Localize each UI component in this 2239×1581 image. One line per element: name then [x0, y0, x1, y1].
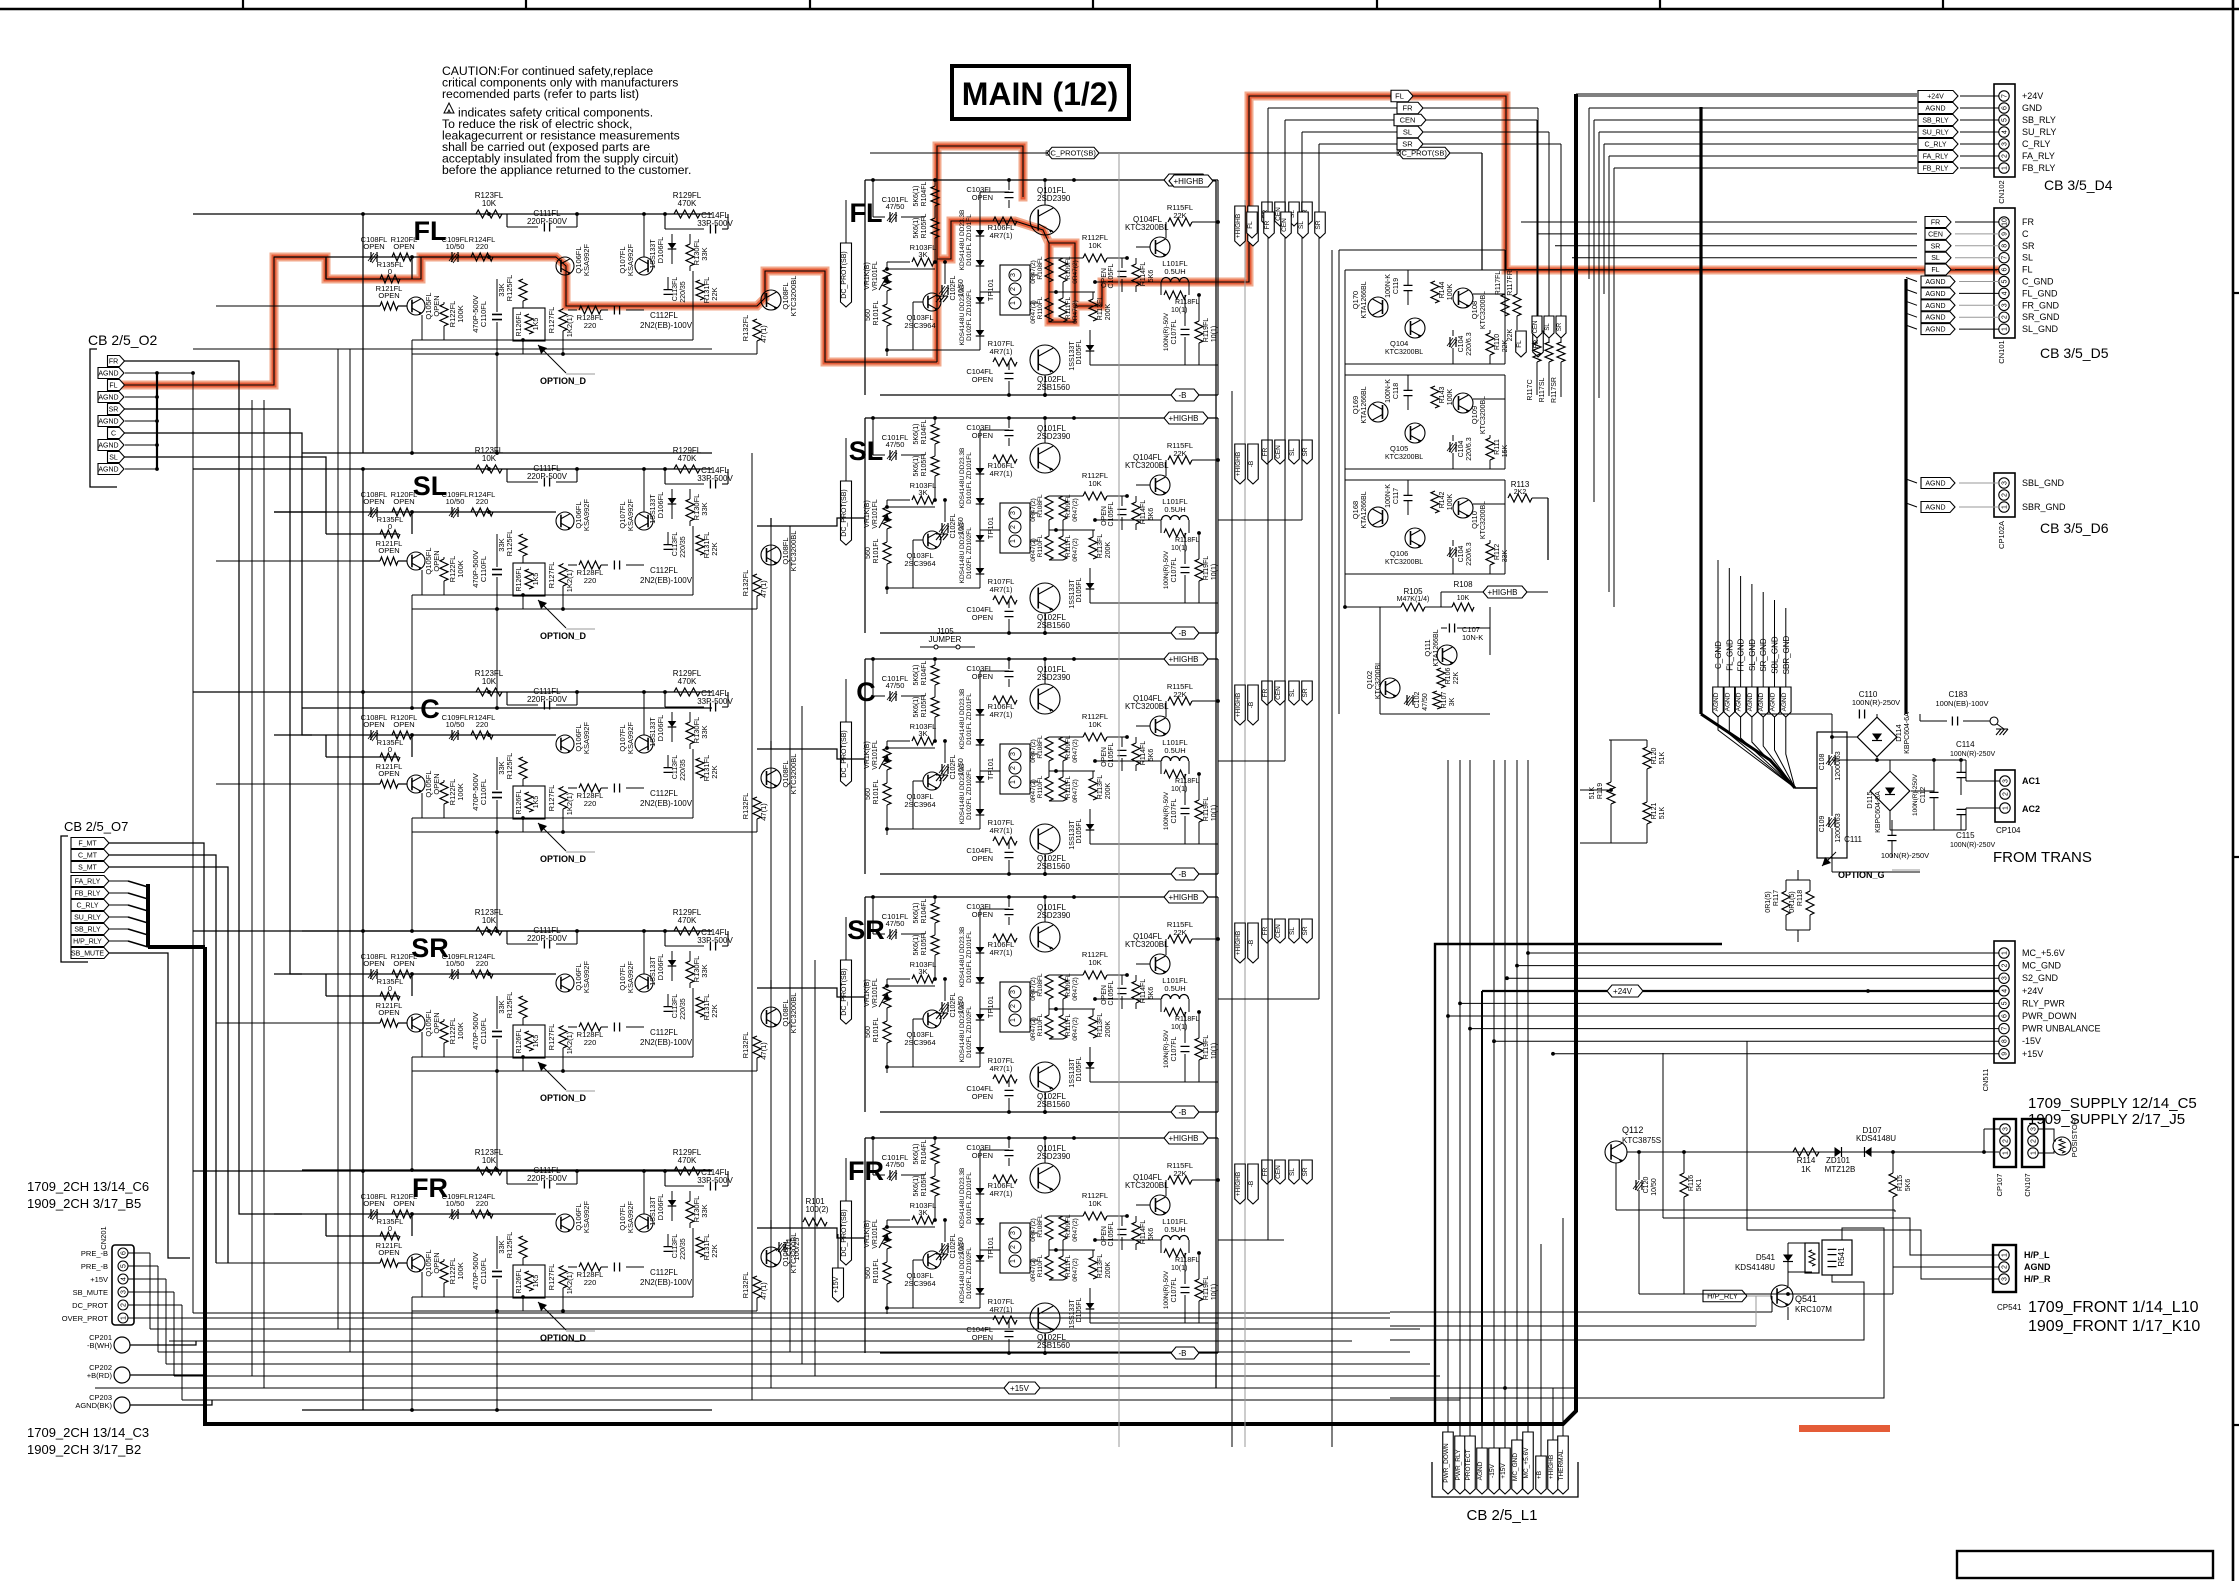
svg-text:22K: 22K	[1453, 671, 1460, 684]
capacitor C112 100N(R)-250V	[1912, 760, 1939, 830]
svg-text:KTC3200BL: KTC3200BL	[1480, 501, 1487, 539]
wire headphone runs	[1390, 1041, 1999, 1398]
svg-text:AGND: AGND	[1713, 692, 1720, 711]
svg-text:3: 3	[2031, 1127, 2038, 1131]
svg-text:KTA1266BL: KTA1266BL	[1361, 281, 1368, 318]
svg-text:SL: SL	[2022, 253, 2033, 263]
svg-text:CB 3/5_D4: CB 3/5_D4	[2044, 177, 2113, 193]
svg-text:CN107: CN107	[2023, 1173, 2032, 1196]
svg-text:1909_SUPPLY 2/17_J5: 1909_SUPPLY 2/17_J5	[2028, 1111, 2185, 1128]
svg-text:2: 2	[2002, 1265, 2009, 1269]
resistor R143 100K	[1431, 386, 1454, 408]
svg-text:220/6.3: 220/6.3	[1466, 542, 1473, 565]
svg-text:before the appliance returned: before the appliance returned to the cus…	[442, 163, 691, 177]
svg-text:C109: C109	[1819, 816, 1826, 833]
ruler right ticks	[2233, 293, 2239, 1425]
svg-text:2: 2	[2002, 154, 2009, 158]
svg-text:MAIN (1/2): MAIN (1/2)	[962, 76, 1118, 112]
svg-text:4: 4	[121, 1277, 128, 1281]
wire preamp outputs to power inputs	[757, 518, 865, 1238]
svg-text:Q112: Q112	[1622, 1125, 1643, 1135]
svg-text:M47K(1/4): M47K(1/4)	[1397, 596, 1430, 603]
svg-text:22K: 22K	[1507, 328, 1514, 341]
svg-text:SR: SR	[1402, 140, 1413, 149]
svg-text:51K: 51K	[1659, 751, 1666, 764]
svg-text:3: 3	[121, 1290, 128, 1294]
svg-text:C102: C102	[1414, 692, 1421, 709]
power block FR	[848, 1132, 1220, 1359]
wire AGND bus CB O2	[125, 371, 195, 471]
svg-text:SR: SR	[1931, 243, 1941, 250]
svg-text:+15V: +15V	[1500, 1463, 1507, 1479]
net DC_PROT(SB) FR	[841, 1158, 852, 1265]
connector CN511	[1981, 941, 2101, 1091]
net labels right bus rows	[1235, 202, 1313, 1204]
svg-text:AGND: AGND	[98, 467, 118, 474]
label GND column	[1713, 620, 1795, 788]
svg-text:R142: R142	[1439, 492, 1446, 509]
svg-text:3K: 3K	[1449, 697, 1456, 706]
svg-text:5: 5	[2002, 1001, 2009, 1005]
svg-text:R117SR: R117SR	[1551, 377, 1558, 403]
svg-text:SL: SL	[109, 455, 118, 462]
svg-text:-B: -B	[1248, 1181, 1255, 1188]
svg-text:PWR UNBALANCE: PWR UNBALANCE	[2022, 1024, 2101, 1034]
svg-text:RLY_PWR: RLY_PWR	[2022, 998, 2065, 1008]
resistor R142 100K	[1431, 491, 1454, 513]
svg-text:100N-K: 100N-K	[1385, 484, 1392, 508]
svg-text:100N(R)-250V: 100N(R)-250V	[1950, 842, 1995, 849]
svg-text:FR: FR	[1264, 220, 1271, 229]
svg-text:R117C: R117C	[1527, 379, 1534, 400]
svg-text:R119: R119	[1597, 783, 1604, 799]
capacitor C115 100N(R)-250V	[1950, 809, 1995, 849]
svg-text:SL: SL	[1545, 323, 1551, 331]
svg-text:THERMAL: THERMAL	[1558, 1449, 1565, 1480]
svg-text:CP104: CP104	[1996, 826, 2021, 835]
svg-text:FR_GND: FR_GND	[2022, 300, 2060, 310]
svg-text:FA_RLY: FA_RLY	[75, 879, 101, 886]
svg-text:6: 6	[2002, 106, 2009, 110]
capacitor C101 100/25	[776, 1238, 801, 1261]
net labels on top rows	[1391, 90, 1426, 150]
transistor Q105 KTC3200BL	[1385, 423, 1425, 461]
svg-text:1: 1	[2002, 166, 2009, 170]
svg-text:4: 4	[2002, 291, 2009, 295]
transistor Q541 KRC107M	[1771, 1272, 1832, 1320]
svg-text:C: C	[856, 677, 876, 707]
svg-text:CEN: CEN	[1400, 116, 1416, 125]
svg-text:1: 1	[2002, 505, 2009, 509]
title MAIN (1/2)	[952, 66, 1129, 119]
connector CP203 AGND(BK)	[75, 1393, 150, 1413]
transistor Q112 KTC3875S	[1605, 1125, 1984, 1210]
capacitor C10x 220/6.3	[1447, 435, 1473, 469]
svg-text:C115: C115	[1956, 831, 1975, 840]
resistor R119 51K	[1589, 740, 1615, 843]
transistor Q106 KTC3200BL	[1385, 528, 1425, 566]
wire bridge interconnects	[1830, 714, 1963, 830]
svg-text:2: 2	[121, 1303, 128, 1307]
svg-text:-B: -B	[1248, 702, 1255, 709]
svg-text:SU_RLY: SU_RLY	[1922, 130, 1949, 137]
svg-text:FR: FR	[1403, 104, 1414, 113]
svg-text:C120: C120	[1643, 1177, 1650, 1194]
svg-text:Q105: Q105	[1390, 444, 1408, 453]
svg-text:1: 1	[2002, 327, 2009, 331]
svg-text:+24V: +24V	[2022, 91, 2043, 101]
label 1709_FRONT	[2028, 1299, 2200, 1335]
svg-text:recomended parts (refer to par: recomended parts (refer to parts list)	[442, 87, 639, 101]
zener ZD101 MTZ12B	[1825, 1147, 1856, 1174]
svg-text:1: 1	[2003, 1151, 2010, 1155]
svg-text:Q108: Q108	[1470, 301, 1479, 319]
svg-text:CN511: CN511	[1981, 1069, 1990, 1092]
svg-text:AGND: AGND	[1781, 692, 1788, 711]
svg-text:KTA1266BL: KTA1266BL	[1433, 629, 1440, 666]
svg-text:MC_GND: MC_GND	[2022, 961, 2062, 971]
svg-text:R117FL: R117FL	[1495, 271, 1502, 295]
power block SR	[847, 891, 1220, 1118]
net H/P_RLY	[1703, 1290, 1772, 1302]
capacitor C10x 220/6.3	[1447, 540, 1473, 574]
svg-text:SL: SL	[1289, 689, 1296, 697]
svg-text:100N(R)-250V: 100N(R)-250V	[1852, 698, 1900, 707]
svg-text:KBPC604-6A: KBPC604-6A	[1875, 791, 1882, 833]
svg-text:3: 3	[2002, 481, 2009, 485]
svg-text:FL: FL	[1516, 340, 1523, 348]
svg-text:CEN: CEN	[1281, 218, 1288, 232]
svg-text:F_MT: F_MT	[78, 841, 97, 848]
svg-text:CB 3/5_D5: CB 3/5_D5	[2040, 345, 2109, 361]
wire relay cluster frame	[1345, 480, 1505, 574]
svg-text:R113: R113	[1511, 480, 1530, 489]
svg-text:FL_GND: FL_GND	[2022, 288, 2058, 298]
svg-text:R541: R541	[1837, 1247, 1846, 1267]
svg-text:C104: C104	[1458, 546, 1465, 563]
svg-text:0R1(5): 0R1(5)	[1789, 891, 1796, 912]
svg-text:CB 2/5_O2: CB 2/5_O2	[88, 332, 157, 348]
resistor R144 100K	[1431, 281, 1454, 303]
svg-text:OVER_PROT: OVER_PROT	[62, 1314, 109, 1323]
svg-text:FB_RLY: FB_RLY	[1923, 166, 1949, 173]
svg-text:3: 3	[2003, 779, 2010, 783]
svg-text:C_RLY: C_RLY	[1924, 142, 1946, 149]
preamp block FL	[193, 191, 798, 455]
connector CP202 +B(RD)	[87, 1363, 150, 1383]
transistor Q169 KTA1266BL	[1351, 386, 1388, 423]
svg-text:AGND: AGND	[1770, 692, 1777, 711]
svg-text:DC_PROT(SB): DC_PROT(SB)	[841, 251, 848, 298]
svg-text:FL: FL	[2022, 265, 2033, 275]
connector CB 2/5_L1	[1432, 760, 1578, 1524]
label FROM TRANS	[1993, 849, 2092, 866]
svg-text:KTC3200BL: KTC3200BL	[1385, 454, 1423, 461]
svg-text:1909_2CH 3/17_B2: 1909_2CH 3/17_B2	[27, 1442, 141, 1457]
net DC_PROT(SB) SR	[841, 917, 852, 1024]
svg-text:2: 2	[2003, 792, 2010, 796]
resistor bank R117C R117SL R117SR 22K	[1527, 316, 1566, 403]
svg-text:5: 5	[2002, 279, 2009, 283]
svg-text:SR_GND: SR_GND	[2022, 312, 2060, 322]
svg-text:4: 4	[2002, 989, 2009, 993]
svg-text:C_RLY: C_RLY	[76, 903, 98, 910]
svg-text:6: 6	[2002, 1014, 2009, 1018]
svg-text:FROM TRANS: FROM TRANS	[1993, 849, 2092, 866]
svg-text:D541: D541	[1756, 1253, 1776, 1262]
svg-text:S2_GND: S2_GND	[2022, 973, 2059, 983]
svg-text:AGND: AGND	[1925, 481, 1945, 488]
wire cluster out	[1473, 398, 1505, 400]
svg-text:AGND: AGND	[1925, 303, 1945, 310]
wire relay bus merge	[109, 881, 205, 1258]
svg-text:AGND: AGND	[98, 371, 118, 378]
svg-text:+HIGHB: +HIGHB	[1235, 931, 1242, 955]
svg-text:KDS4148U: KDS4148U	[1735, 1263, 1775, 1272]
wire supply left horizontals	[1580, 740, 1613, 843]
svg-text:OPTION_G: OPTION_G	[1838, 870, 1885, 880]
diode D107 KDS4148U	[1856, 1126, 1896, 1157]
svg-text:-B: -B	[1248, 940, 1255, 947]
preamp block SR	[193, 908, 798, 1172]
net +HIGHB top	[1169, 175, 1216, 1388]
svg-text:SU_RLY: SU_RLY	[2022, 127, 2056, 137]
svg-text:SB_RLY: SB_RLY	[2022, 115, 2056, 125]
svg-text:D115: D115	[1865, 791, 1874, 808]
svg-text:PRE_-B: PRE_-B	[81, 1249, 108, 1258]
svg-text:C_GND: C_GND	[2022, 277, 2054, 287]
svg-text:C183: C183	[1948, 690, 1968, 699]
svg-text:AGND(BK): AGND(BK)	[75, 1401, 112, 1410]
svg-text:SB_RLY: SB_RLY	[74, 927, 101, 934]
wire MT runs	[109, 843, 228, 1263]
svg-text:1: 1	[2003, 806, 2010, 810]
svg-text:C_MT: C_MT	[78, 853, 98, 860]
svg-text:DC_PROT: DC_PROT	[72, 1301, 108, 1310]
svg-text:FL: FL	[414, 216, 447, 246]
svg-text:R114: R114	[1797, 1156, 1816, 1165]
net DC_PROT(SB) top	[870, 147, 1482, 270]
svg-text:PRE_-B: PRE_-B	[81, 1262, 108, 1271]
svg-text:R108: R108	[1453, 580, 1473, 589]
svg-text:MC_+5.6V: MC_+5.6V	[2022, 948, 2065, 958]
svg-text:51K: 51K	[1659, 806, 1666, 819]
svg-text:R115: R115	[1897, 1175, 1904, 1191]
wire relay cluster frame	[1345, 270, 1505, 364]
svg-text:Q102: Q102	[1365, 671, 1374, 689]
svg-text:AGND: AGND	[2024, 1262, 2051, 1272]
svg-text:100(2): 100(2)	[805, 1205, 828, 1214]
wire long horizontal y349	[193, 348, 712, 350]
svg-text:9: 9	[2002, 1052, 2009, 1056]
svg-text:3: 3	[2003, 1127, 2010, 1131]
svg-text:CP107: CP107	[1995, 1174, 2004, 1197]
svg-text:SL: SL	[1289, 448, 1296, 456]
svg-text:1709_FRONT 1/14_L10: 1709_FRONT 1/14_L10	[2028, 1299, 2199, 1316]
svg-text:220/6.3: 220/6.3	[1466, 437, 1473, 460]
svg-text:CB 3/5_D6: CB 3/5_D6	[2040, 520, 2109, 536]
svg-text:AC2: AC2	[2022, 804, 2040, 814]
svg-text:SR: SR	[1302, 447, 1309, 456]
wire AGND thick bus right	[1906, 278, 1917, 715]
transistor Q104 KTC3200BL	[1385, 318, 1425, 356]
connector CP541	[1993, 1245, 2051, 1312]
svg-text:SL_GND: SL_GND	[2022, 324, 2059, 334]
connector CP102A	[1906, 473, 2109, 549]
svg-text:SB_MUTE: SB_MUTE	[73, 1288, 108, 1297]
svg-text:CN101: CN101	[1997, 340, 2006, 363]
svg-text:Q541: Q541	[1795, 1294, 1817, 1304]
svg-text:R106: R106	[1445, 668, 1452, 685]
svg-text:FL: FL	[1931, 267, 1939, 274]
svg-text:SBR_GND: SBR_GND	[2022, 502, 2066, 512]
svg-text:+15V: +15V	[90, 1275, 108, 1284]
wire relay section frame	[1339, 250, 1505, 714]
svg-text:Q104: Q104	[1390, 339, 1408, 348]
svg-text:R111: R111	[1494, 439, 1501, 455]
label 1709_2CH 13/14_C6	[27, 1179, 149, 1211]
svg-text:R117SL: R117SL	[1539, 378, 1546, 403]
svg-text:FB_RLY: FB_RLY	[75, 891, 101, 898]
svg-text:SR: SR	[1302, 1167, 1309, 1176]
svg-text:GND: GND	[2022, 103, 2043, 113]
svg-text:PWR_DOWN: PWR_DOWN	[1443, 1443, 1450, 1483]
svg-text:SR: SR	[1302, 688, 1309, 697]
svg-text:MC_+5.6V: MC_+5.6V	[1523, 1447, 1530, 1479]
preamp block C	[193, 669, 798, 933]
svg-text:R110: R110	[1494, 334, 1501, 350]
svg-text:SBL_GND: SBL_GND	[2022, 478, 2065, 488]
capacitor C117 100N-K	[1385, 480, 1413, 515]
svg-text:+15V: +15V	[833, 1276, 840, 1293]
capacitor C111 100N(R)-250V	[1844, 820, 1929, 860]
svg-text:R105: R105	[1403, 587, 1423, 596]
preamp block SL	[193, 446, 798, 710]
svg-text:5K1: 5K1	[1696, 1179, 1703, 1192]
resistor R114 1K	[1793, 1148, 1819, 1174]
svg-text:DC_PROT(SB): DC_PROT(SB)	[1045, 149, 1096, 158]
bridge rectifier D115 KBPC604-6A	[1865, 771, 1910, 833]
svg-text:0R1(5): 0R1(5)	[1765, 891, 1772, 912]
ruler right border line	[2232, 0, 2235, 1581]
svg-text:-15V: -15V	[1489, 1463, 1496, 1477]
svg-text:R107: R107	[1441, 692, 1448, 709]
svg-text:8: 8	[2002, 1039, 2009, 1043]
svg-text:+15V: +15V	[1010, 1384, 1030, 1393]
wire thick relay bus to right	[205, 94, 1576, 1424]
transistor Q168 KTA1266BL	[1351, 491, 1388, 528]
svg-text:2: 2	[2031, 1139, 2038, 1143]
svg-text:KTC3200BL: KTC3200BL	[1375, 661, 1382, 699]
svg-text:2: 2	[2003, 1139, 2010, 1143]
svg-text:Q168: Q168	[1351, 501, 1360, 519]
svg-text:SL: SL	[1931, 255, 1940, 262]
svg-text:D114: D114	[1894, 724, 1903, 741]
net DC_PROT(SB) FL	[841, 200, 852, 307]
wire CN101 feeds	[1506, 222, 1917, 270]
svg-text:-B(WH): -B(WH)	[87, 1341, 112, 1350]
wire cluster out	[1473, 293, 1505, 295]
svg-text:10: 10	[2002, 218, 2009, 226]
svg-text:CN201: CN201	[99, 1226, 108, 1249]
svg-text:AGND: AGND	[1925, 505, 1945, 512]
svg-text:6: 6	[121, 1251, 128, 1255]
resistor R110 22K	[1486, 330, 1509, 364]
svg-text:100N(R)-250V: 100N(R)-250V	[1912, 773, 1919, 816]
svg-text:Q109: Q109	[1470, 406, 1479, 424]
svg-text:JUMPER: JUMPER	[929, 635, 962, 644]
orange mark bottom right	[1799, 1425, 1890, 1432]
transistor Q110 KTC3200BL	[1453, 498, 1487, 539]
net +15V vertical	[833, 1234, 844, 1302]
svg-text:C118: C118	[1393, 383, 1400, 399]
svg-text:KDS4148U: KDS4148U	[1856, 1134, 1896, 1143]
svg-text:100N(EB)-100V: 100N(EB)-100V	[1936, 699, 1989, 708]
capacitor C120 10/50	[1633, 1150, 1658, 1294]
svg-text:SL: SL	[1298, 221, 1305, 229]
svg-text:+24V: +24V	[1613, 987, 1633, 996]
svg-text:2: 2	[2002, 493, 2009, 497]
resistor R116 5K1	[1680, 1150, 1703, 1294]
connector CP104	[1961, 760, 2040, 835]
svg-text:CEN: CEN	[1928, 231, 1943, 238]
svg-text:C: C	[111, 431, 116, 438]
svg-text:100/25: 100/25	[792, 1238, 801, 1261]
svg-text:+HIGHB: +HIGHB	[1173, 177, 1203, 186]
svg-text:AGND: AGND	[1477, 1461, 1484, 1480]
wire mute stubs	[216, 306, 364, 1263]
svg-text:S_MT: S_MT	[78, 865, 97, 872]
svg-text:KTA1266BL: KTA1266BL	[1361, 386, 1368, 423]
svg-text:CB 2/5_O7: CB 2/5_O7	[64, 819, 128, 834]
capacitor C10x 220/6.3	[1447, 330, 1473, 364]
resistor R121 51K	[1609, 769, 1666, 843]
svg-text:+HIGHB: +HIGHB	[1548, 1455, 1555, 1479]
svg-text:SR: SR	[2022, 241, 2035, 251]
svg-text:CEN: CEN	[1533, 321, 1539, 334]
svg-text:AGND: AGND	[1925, 291, 1945, 298]
svg-text:CN102: CN102	[1997, 180, 2006, 203]
wire middle verticals	[752, 453, 815, 1400]
svg-text:KTC3200BL: KTC3200BL	[1385, 349, 1423, 356]
svg-text:2: 2	[2002, 964, 2009, 968]
svg-text:1909_2CH 3/17_B5: 1909_2CH 3/17_B5	[27, 1196, 141, 1211]
svg-text:H/P_L: H/P_L	[2024, 1250, 2050, 1260]
svg-text:SR: SR	[109, 407, 119, 414]
connector CP201 -B(WH)	[87, 1333, 150, 1353]
resistor bank R117FL R117FR 22K	[1495, 270, 1521, 341]
svg-text:51K: 51K	[1589, 786, 1596, 799]
svg-text:C112: C112	[1920, 787, 1927, 803]
svg-text:AGND: AGND	[1724, 692, 1731, 711]
svg-text:ZD101: ZD101	[1826, 1156, 1851, 1165]
svg-text:+HIGHB: +HIGHB	[1235, 214, 1242, 238]
svg-text:FL: FL	[1395, 92, 1404, 101]
wire +B thick feed	[1435, 944, 1722, 1424]
svg-text:R118: R118	[1797, 890, 1804, 906]
svg-text:1: 1	[121, 1316, 128, 1320]
svg-text:C104: C104	[1458, 441, 1465, 458]
posistor	[2038, 1118, 2079, 1157]
svg-text:+24V: +24V	[2022, 986, 2043, 996]
svg-text:C111: C111	[1844, 835, 1862, 844]
svg-text:KTA1266BL: KTA1266BL	[1361, 491, 1368, 528]
net labels FL FR right pair	[1516, 331, 1544, 357]
svg-text:FR: FR	[412, 1173, 448, 1203]
svg-text:SL: SL	[1289, 1168, 1296, 1176]
svg-text:-B: -B	[1248, 461, 1255, 468]
svg-text:3: 3	[2002, 142, 2009, 146]
